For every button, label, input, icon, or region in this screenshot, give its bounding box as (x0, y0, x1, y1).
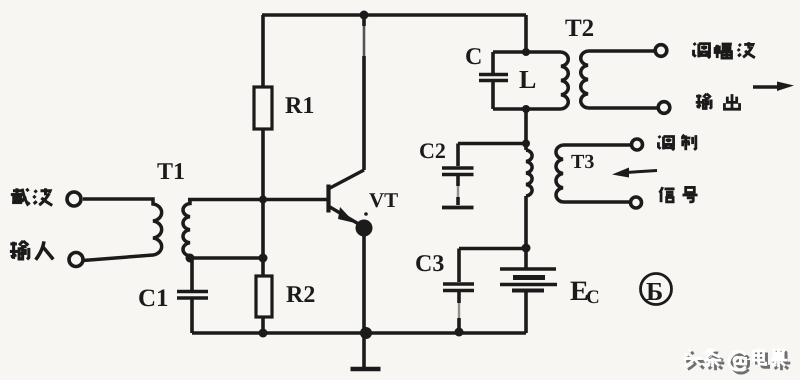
svg-text:R1: R1 (285, 93, 314, 119)
svg-text:C3: C3 (415, 251, 444, 277)
svg-text:C1: C1 (138, 285, 169, 312)
svg-text:C2: C2 (419, 138, 446, 163)
svg-text:T2: T2 (565, 15, 594, 42)
svg-text:L: L (519, 65, 536, 94)
svg-text:T1: T1 (157, 159, 185, 185)
svg-text:VT: VT (369, 188, 398, 212)
svg-text:C: C (465, 44, 482, 70)
svg-text:R2: R2 (286, 282, 315, 308)
svg-text:C: C (586, 287, 600, 308)
svg-text:Б: Б (646, 277, 663, 306)
svg-text:T3: T3 (571, 151, 594, 173)
